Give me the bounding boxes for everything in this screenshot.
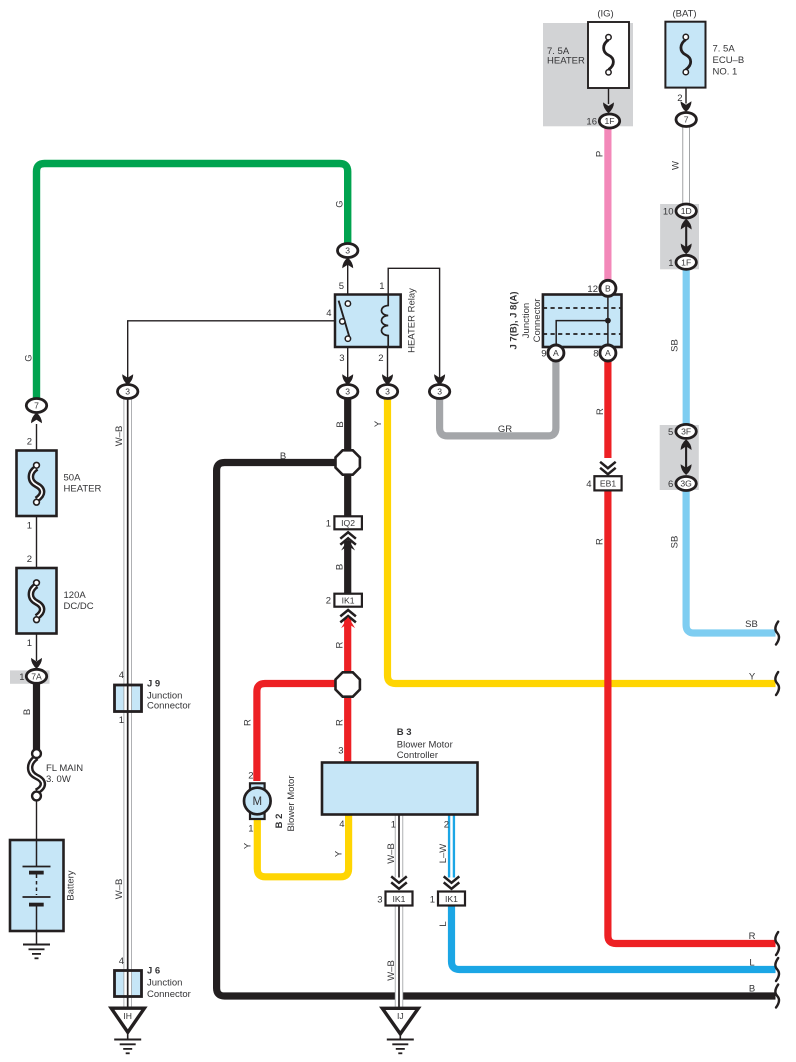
svg-text:SB: SB [745,619,758,630]
svg-text:R: R [335,641,346,648]
svg-text:50A: 50A [64,473,82,484]
wire W-B white/black: B3 pin1 down to IK1 and to IJ ground [395,815,403,1010]
ground IJ triangle [382,1008,418,1053]
svg-text:3: 3 [345,246,350,256]
wire break SB [775,622,779,645]
connector oval 3 (green to relay) [338,244,358,269]
svg-text:J 9: J 9 [147,679,160,690]
svg-text:W–B: W–B [386,843,397,864]
svg-text:7A: 7A [31,672,42,682]
svg-text:R: R [243,719,254,726]
svg-text:J 7(B), J 8(A): J 7(B), J 8(A) [509,291,520,349]
ground IH triangle [111,1008,144,1053]
node octagon on B wire [336,450,360,474]
svg-text:2: 2 [378,353,383,364]
wire R red: IK1 down to B3 pin3 through octagon [344,618,351,763]
wire P pink: from fuse connector 1F down to junction B [604,127,611,282]
IK1 connector (bottom right pin1) [430,876,465,905]
svg-text:7: 7 [34,401,39,411]
connector circle A pin9 [541,345,564,361]
svg-text:M: M [253,796,263,808]
svg-text:1: 1 [27,521,32,532]
svg-text:B: B [335,564,346,570]
svg-text:HEATER Relay: HEATER Relay [407,288,418,353]
B3 blower motor controller [322,727,478,831]
left column: connector oval 7 [26,399,46,451]
svg-text:P: P [595,151,606,157]
svg-text:1: 1 [430,895,435,906]
svg-text:G: G [335,200,346,207]
svg-text:1: 1 [19,672,24,683]
svg-text:NO. 1: NO. 1 [713,67,738,78]
svg-text:1: 1 [326,518,331,529]
svg-text:Y: Y [243,842,254,849]
connector circle B pin12 [587,280,615,296]
svg-text:1: 1 [119,715,124,726]
wire B thick black: relay pin3 oval down to IQ2 [344,398,351,517]
wire R red: octagon branch left and down to blower motor pin2 [257,684,348,782]
svg-text:1: 1 [379,281,384,292]
svg-text:B: B [22,709,33,715]
svg-text:Battery: Battery [66,870,77,900]
connector oval 16 1F [586,114,619,128]
svg-text:Y: Y [334,850,345,857]
svg-text:1F: 1F [681,258,691,268]
svg-text:L: L [749,958,754,969]
svg-text:EB1: EB1 [600,479,616,489]
svg-text:1: 1 [668,258,673,269]
svg-text:3: 3 [125,387,130,397]
wire GR grey: relay pin1 connector down to junction connector pin9 [440,358,556,436]
svg-text:IK1: IK1 [393,894,406,904]
svg-text:3: 3 [345,387,350,397]
connector oval 3 (relay pin1 to GR) [429,374,449,398]
svg-text:2: 2 [248,771,253,782]
svg-text:Controller: Controller [397,750,438,761]
svg-text:W–B: W–B [114,879,125,900]
J6 junction connector [115,956,191,1000]
svg-text:3F: 3F [681,427,691,437]
svg-text:16: 16 [586,117,597,128]
svg-text:3: 3 [377,895,382,906]
svg-text:DC/DC: DC/DC [64,601,94,612]
grey highlight box behind 1D/1F connectors [660,204,699,269]
connector oval 3 (relay pin3) [338,374,358,398]
svg-text:R: R [335,719,346,726]
svg-text:L–W: L–W [438,844,449,864]
svg-text:Junction: Junction [521,303,532,338]
wire B thick black: IQ2 to IK1 [344,541,351,594]
junction connector J7(B) J8(A) [509,291,622,349]
grey highlight box behind 3F/3G connectors [660,425,699,490]
connector oval 3 (relay pin2) [377,374,397,398]
svg-text:W: W [671,161,682,170]
wire break B [775,985,779,1008]
svg-text:9: 9 [541,349,546,360]
svg-text:Y: Y [373,420,384,427]
svg-text:Junction: Junction [147,978,182,989]
connector oval 7A [19,669,46,683]
svg-text:ECU–B: ECU–B [713,55,745,66]
fusible link FL MAIN 3.0W [30,749,83,840]
grey highlight band behind 7A connector [10,670,50,683]
svg-text:3G: 3G [680,479,692,489]
svg-text:W–B: W–B [386,960,397,981]
svg-text:2: 2 [27,554,32,565]
wire L-W blue/white: B3 pin2 down to IK1 [448,815,455,878]
wire W-B white/black: relay pin4 line oval3 down through J9 and J6 to IH ground [123,399,131,1010]
svg-text:B: B [605,284,611,294]
J9 junction connector [115,670,191,726]
svg-text:7. 5A: 7. 5A [713,44,736,55]
thin wire: relay pin2 down [387,347,389,379]
svg-text:B: B [335,421,346,427]
svg-text:B: B [749,984,755,995]
svg-text:Blower Motor: Blower Motor [286,776,297,832]
wire break R [775,932,779,955]
thin wire: relay pin4 to W-B oval 3 [128,321,335,379]
svg-text:Blower Motor: Blower Motor [397,739,453,750]
svg-text:B 2: B 2 [274,814,285,829]
svg-text:Y: Y [749,672,756,683]
svg-text:R: R [749,931,756,942]
connector circle A pin8 [593,345,616,361]
fuse 50A HEATER [17,451,102,569]
svg-text:3: 3 [437,387,442,397]
svg-text:1: 1 [391,820,396,831]
svg-text:4: 4 [119,956,124,967]
wire L blue: IK1 down corner right to edge [452,906,776,970]
connector pair 3F/3G [668,424,696,490]
svg-text:3: 3 [339,353,344,364]
svg-text:FL MAIN: FL MAIN [46,763,83,774]
svg-text:HEATER: HEATER [64,484,102,495]
svg-text:8: 8 [593,349,598,360]
svg-text:12: 12 [587,284,598,295]
svg-text:2: 2 [27,437,32,448]
svg-text:4: 4 [119,670,124,681]
svg-text:1: 1 [27,638,32,649]
fuse 7.5A ECU-B NO.1 (BAT) [665,9,744,113]
svg-text:Connector: Connector [532,299,543,343]
wire SB light blue: from 3G down and right to edge [686,488,775,633]
svg-text:R: R [595,408,606,415]
wire Y yellow: blower motor B2 pin1 to controller B3 pin4 [257,814,348,877]
svg-text:GR: GR [498,424,512,435]
connector pair 1D/1F [663,204,696,269]
fuse 7.5A HEATER (IG) [547,9,629,114]
heater relay U1 [326,281,417,364]
svg-text:IK1: IK1 [342,596,355,606]
wire B thick black: 7A to FL MAIN [33,684,40,751]
IQ2 connector [326,516,362,550]
svg-text:7: 7 [684,115,689,125]
thin wire: relay pin3 down [347,347,349,379]
IK1 connector (bottom left pin3) [377,876,412,905]
svg-text:2: 2 [444,820,449,831]
wire B thick black: octagon junction left, down and right along bottom to edge [217,463,776,997]
connector oval 7 (BAT) [676,113,696,127]
svg-text:5: 5 [668,427,673,438]
svg-text:J 6: J 6 [147,966,160,977]
svg-text:3: 3 [385,387,390,397]
grey highlight box behind IG fuse [543,23,633,126]
battery [10,840,77,958]
svg-text:SB: SB [670,339,681,352]
svg-text:10: 10 [663,207,674,218]
svg-text:1F: 1F [604,116,614,126]
svg-text:IJ: IJ [397,1011,404,1021]
wire Y yellow: relay pin2 down and right to edge [388,395,776,684]
svg-text:A: A [605,348,611,358]
svg-text:120A: 120A [64,590,87,601]
wire W white: BAT fuse connector 7 down to 1D [682,125,690,205]
svg-text:Connector: Connector [147,989,191,1000]
EB1 connector [586,462,621,491]
svg-text:1D: 1D [681,206,692,216]
wire R red: junction pin8 down through EB1 corner right to edge [604,358,611,458]
svg-text:5: 5 [339,281,344,292]
svg-text:3: 3 [338,746,343,757]
wire G green: battery feed from oval 7 up over to heater relay [37,164,348,402]
svg-text:4: 4 [586,479,591,490]
svg-text:Connector: Connector [147,701,191,712]
IK1 connector (top) [326,594,362,628]
svg-text:R: R [595,538,606,545]
fuse 120A DC/DC [17,568,94,669]
svg-text:A: A [553,348,559,358]
wire SB light blue: from 1F down to 3F [683,269,690,427]
svg-text:4: 4 [326,308,331,319]
svg-text:(IG): (IG) [597,9,613,20]
wire break Y [775,672,779,695]
svg-text:HEATER: HEATER [547,56,585,67]
connector oval 3 (W-B column) [118,374,138,398]
svg-text:L: L [438,921,449,926]
B2 blower motor [244,771,297,835]
svg-text:IQ2: IQ2 [341,518,355,528]
thin wire: relay pin1 over to GR oval 3 [388,268,439,379]
wire break L [775,958,779,981]
svg-text:6: 6 [668,479,673,490]
svg-text:2: 2 [326,596,331,607]
svg-text:3. 0W: 3. 0W [46,774,71,785]
svg-text:IH: IH [123,1011,132,1021]
svg-text:SB: SB [670,536,681,549]
svg-text:IK1: IK1 [445,894,458,904]
svg-text:1: 1 [248,824,253,835]
svg-text:(BAT): (BAT) [672,9,696,20]
thin wire: green oval3 to relay pin5 [347,264,349,295]
svg-text:B: B [280,451,286,462]
svg-text:G: G [24,354,35,361]
svg-text:W–B: W–B [114,426,125,447]
svg-text:4: 4 [339,819,344,830]
svg-text:B 3: B 3 [397,727,412,738]
node octagon on R wire [336,672,360,696]
